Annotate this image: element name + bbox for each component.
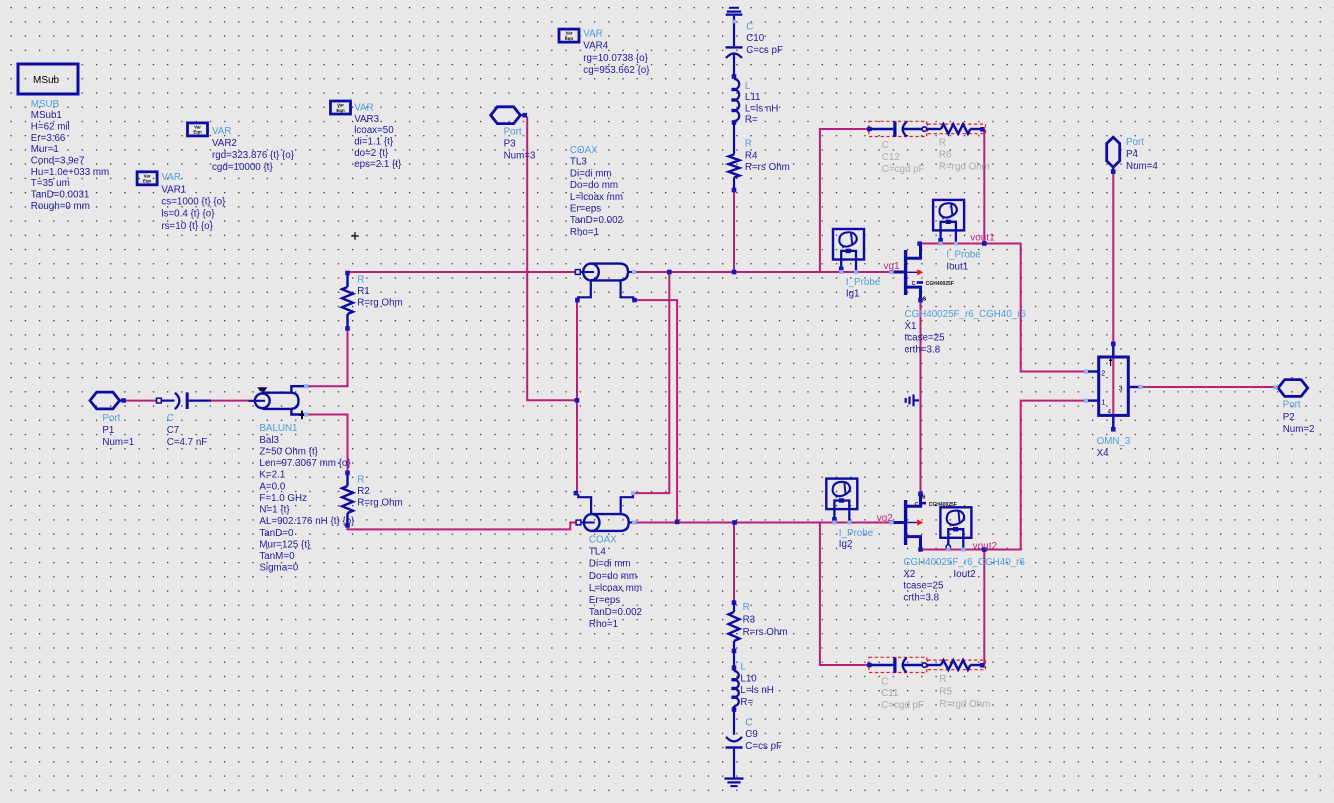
svg-text:VAR: VAR [161, 172, 180, 183]
svg-text:L10: L10 [740, 673, 757, 684]
svg-text:TanD=0.002: TanD=0.002 [589, 607, 642, 618]
svg-text:vout2: vout2 [973, 541, 998, 552]
svg-text:Eqn: Eqn [143, 179, 152, 184]
svg-text:C12: C12 [882, 152, 900, 163]
svg-text:cg=953.662 {o}: cg=953.662 {o} [583, 65, 650, 76]
svg-text:VAR2: VAR2 [212, 138, 237, 149]
svg-text:C: C [882, 140, 889, 151]
svg-text:tcase=25: tcase=25 [905, 333, 946, 344]
svg-text:F=1.0 GHz: F=1.0 GHz [259, 493, 307, 504]
svg-text:cs=1000 {t} {o}: cs=1000 {t} {o} [161, 197, 226, 208]
svg-text:Er=eps: Er=eps [570, 204, 601, 215]
svg-text:L=lcoax mm: L=lcoax mm [589, 583, 642, 594]
svg-text:Sigma=0: Sigma=0 [259, 563, 298, 574]
svg-text:C=cgd pF: C=cgd pF [882, 164, 925, 175]
svg-text:Ig2: Ig2 [839, 539, 853, 550]
svg-text:C7: C7 [167, 425, 180, 436]
svg-text:MSub: MSub [33, 75, 60, 86]
svg-text:tcase=25: tcase=25 [903, 581, 944, 592]
svg-text:cgd=10000 {t}: cgd=10000 {t} [212, 162, 273, 173]
svg-text:C: C [915, 502, 919, 508]
svg-text:crth=3.8: crth=3.8 [905, 345, 941, 356]
svg-text:R: R [745, 139, 752, 150]
svg-text:P3: P3 [504, 138, 517, 149]
svg-text:R6: R6 [939, 149, 952, 160]
svg-text:3: 3 [1119, 386, 1123, 393]
svg-text:Rho=1: Rho=1 [570, 227, 599, 238]
svg-text:do=2 {t}: do=2 {t} [354, 148, 389, 159]
svg-text:H=62 mil: H=62 mil [31, 122, 70, 133]
svg-text:Mur=125 {t}: Mur=125 {t} [259, 539, 311, 550]
svg-text:C=cs pF: C=cs pF [746, 45, 783, 56]
svg-text:Rho=1: Rho=1 [589, 619, 618, 630]
svg-text:OMN_3: OMN_3 [1097, 436, 1131, 447]
svg-text:L: L [745, 81, 751, 92]
svg-text:TL4: TL4 [589, 547, 606, 558]
svg-text:Er=eps: Er=eps [589, 595, 620, 606]
svg-text:Er=3.66: Er=3.66 [31, 133, 66, 144]
svg-text:Len=97.3067 mm {o}: Len=97.3067 mm {o} [259, 458, 351, 469]
svg-text:Mur=1: Mur=1 [31, 144, 59, 155]
svg-text:vout1: vout1 [970, 233, 995, 244]
svg-text:di=1.1 {t}: di=1.1 {t} [354, 137, 394, 148]
svg-text:ls=0.4 {t} {o}: ls=0.4 {t} {o} [161, 209, 215, 220]
svg-text:VAR4: VAR4 [583, 41, 608, 52]
svg-text:s: s [922, 296, 926, 303]
svg-text:X4: X4 [1097, 448, 1110, 459]
svg-text:CGH40025F: CGH40025F [926, 281, 954, 287]
svg-text:Do=do mm: Do=do mm [589, 571, 637, 582]
svg-text:TanD=0.002: TanD=0.002 [570, 215, 623, 226]
svg-text:R=rs Ohm: R=rs Ohm [745, 162, 790, 173]
svg-text:Port: Port [1126, 137, 1144, 148]
svg-text:R3: R3 [743, 614, 756, 625]
svg-text:T=35 um: T=35 um [31, 178, 70, 189]
svg-text:Bal3: Bal3 [259, 435, 279, 446]
svg-text:C: C [881, 676, 888, 687]
svg-text:Hu=1.0e+033 mm: Hu=1.0e+033 mm [31, 167, 109, 178]
svg-text:C: C [912, 281, 916, 287]
svg-text:L11: L11 [745, 92, 761, 103]
svg-text:VAR3: VAR3 [354, 114, 379, 125]
svg-text:I_Probe: I_Probe [846, 277, 881, 288]
svg-text:TanD=0.0031: TanD=0.0031 [31, 189, 90, 200]
svg-text:Cond=3.9e7: Cond=3.9e7 [31, 156, 85, 167]
svg-text:eps=2.1 {t}: eps=2.1 {t} [354, 159, 402, 170]
svg-text:CGH40025F_r6_CGH40_r6: CGH40025F_r6_CGH40_r6 [905, 309, 1027, 320]
svg-text:VAR: VAR [212, 126, 231, 137]
svg-text:L: L [740, 662, 746, 673]
svg-text:Eqn: Eqn [193, 130, 202, 135]
svg-text:TL3: TL3 [570, 157, 587, 168]
svg-text:R: R [939, 674, 946, 685]
svg-text:crth=3.8: crth=3.8 [903, 593, 939, 604]
svg-text:C: C [167, 413, 174, 424]
svg-text:P4: P4 [1126, 149, 1139, 160]
svg-text:rs=10 {t} {o}: rs=10 {t} {o} [161, 221, 213, 232]
svg-text:I_Probe: I_Probe [839, 528, 874, 539]
svg-text:C=cs pF: C=cs pF [745, 741, 782, 752]
svg-text:Do=do mm: Do=do mm [570, 180, 618, 191]
svg-text:VAR: VAR [354, 103, 373, 114]
svg-text:Eqn: Eqn [565, 36, 574, 41]
svg-text:TanD=0: TanD=0 [259, 528, 294, 539]
svg-text:R=rg Ohm: R=rg Ohm [357, 498, 402, 509]
svg-text:Num=2: Num=2 [1283, 424, 1315, 435]
svg-text:C: C [745, 717, 752, 728]
svg-text:K=2.1: K=2.1 [259, 470, 285, 481]
svg-text:R=: R= [740, 697, 753, 708]
svg-text:TanM=0: TanM=0 [259, 551, 295, 562]
svg-text:R=rgd Ohm: R=rgd Ohm [939, 162, 990, 173]
svg-text:Rough=0 mm: Rough=0 mm [31, 201, 90, 212]
svg-text:L=ls nH: L=ls nH [745, 103, 779, 114]
svg-text:MSub1: MSub1 [31, 110, 62, 121]
svg-text:R=: R= [745, 114, 758, 125]
svg-text:R=rs Ohm: R=rs Ohm [743, 627, 788, 638]
svg-text:MSUB: MSUB [31, 99, 60, 110]
svg-text:rg=10.0738 {o}: rg=10.0738 {o} [583, 53, 648, 64]
svg-text:VAR1: VAR1 [161, 184, 186, 195]
svg-text:BALUN1: BALUN1 [259, 423, 297, 434]
svg-text:C9: C9 [745, 729, 758, 740]
svg-text:I_Probe: I_Probe [946, 249, 981, 260]
svg-text:2: 2 [1101, 370, 1105, 377]
svg-text:X1: X1 [905, 321, 917, 332]
svg-text:A=0.0: A=0.0 [259, 481, 285, 492]
svg-text:1: 1 [1101, 399, 1105, 406]
svg-text:C10: C10 [746, 33, 765, 44]
svg-text:R: R [939, 137, 946, 148]
svg-text:s: s [922, 494, 926, 501]
svg-text:Iout1: Iout1 [946, 261, 968, 272]
svg-text:Ig1: Ig1 [846, 288, 860, 299]
svg-text:R: R [743, 602, 750, 613]
svg-text:Iout2: Iout2 [953, 569, 976, 580]
svg-text:R5: R5 [939, 686, 952, 697]
svg-text:P1: P1 [102, 425, 114, 436]
svg-text:R=rgd Ohm: R=rgd Ohm [939, 699, 990, 710]
svg-text:VAR: VAR [583, 28, 602, 39]
svg-text:Z=50 Ohm {t}: Z=50 Ohm {t} [259, 446, 318, 457]
svg-text:Eqn: Eqn [336, 108, 345, 113]
svg-text:rgd=323.876 {t} {o}: rgd=323.876 {t} {o} [212, 150, 295, 161]
svg-text:AL=902.176 nH {t} {o}: AL=902.176 nH {t} {o} [259, 516, 355, 527]
svg-text:Di=di mm: Di=di mm [570, 168, 612, 179]
svg-text:R1: R1 [357, 286, 370, 297]
svg-text:C: C [746, 21, 753, 32]
svg-text:Port: Port [102, 413, 120, 424]
svg-text:R2: R2 [357, 486, 370, 497]
svg-text:L=lcoax mm: L=lcoax mm [570, 192, 623, 203]
svg-text:C11: C11 [881, 688, 898, 699]
svg-text:Num=1: Num=1 [102, 437, 134, 448]
svg-text:vg2: vg2 [877, 513, 894, 524]
svg-text:N=1 {t}: N=1 {t} [259, 505, 290, 516]
svg-text:R=rg Ohm: R=rg Ohm [357, 298, 402, 309]
svg-text:vg1: vg1 [884, 261, 901, 272]
svg-text:Port: Port [1283, 399, 1301, 410]
svg-text:C=cgd pF: C=cgd pF [881, 700, 924, 711]
svg-text:Num=4: Num=4 [1126, 161, 1158, 172]
svg-text:R4: R4 [745, 150, 758, 161]
svg-text:Di=di mm: Di=di mm [589, 559, 631, 570]
svg-text:CGH40025F_r6_CGH40_r6: CGH40025F_r6_CGH40_r6 [903, 557, 1025, 568]
svg-text:X2: X2 [903, 569, 915, 580]
svg-text:lcoax=50: lcoax=50 [354, 125, 394, 136]
svg-text:R: R [357, 474, 364, 485]
svg-text:COAX: COAX [570, 145, 598, 156]
svg-text:Num=3: Num=3 [504, 151, 536, 162]
svg-text:Port: Port [504, 126, 522, 137]
svg-text:L=ls nH: L=ls nH [740, 685, 774, 696]
svg-text:R: R [357, 274, 364, 285]
svg-text:P2: P2 [1283, 412, 1295, 423]
svg-text:C=4.7 nF: C=4.7 nF [167, 437, 208, 448]
svg-text:COAX: COAX [589, 535, 617, 546]
